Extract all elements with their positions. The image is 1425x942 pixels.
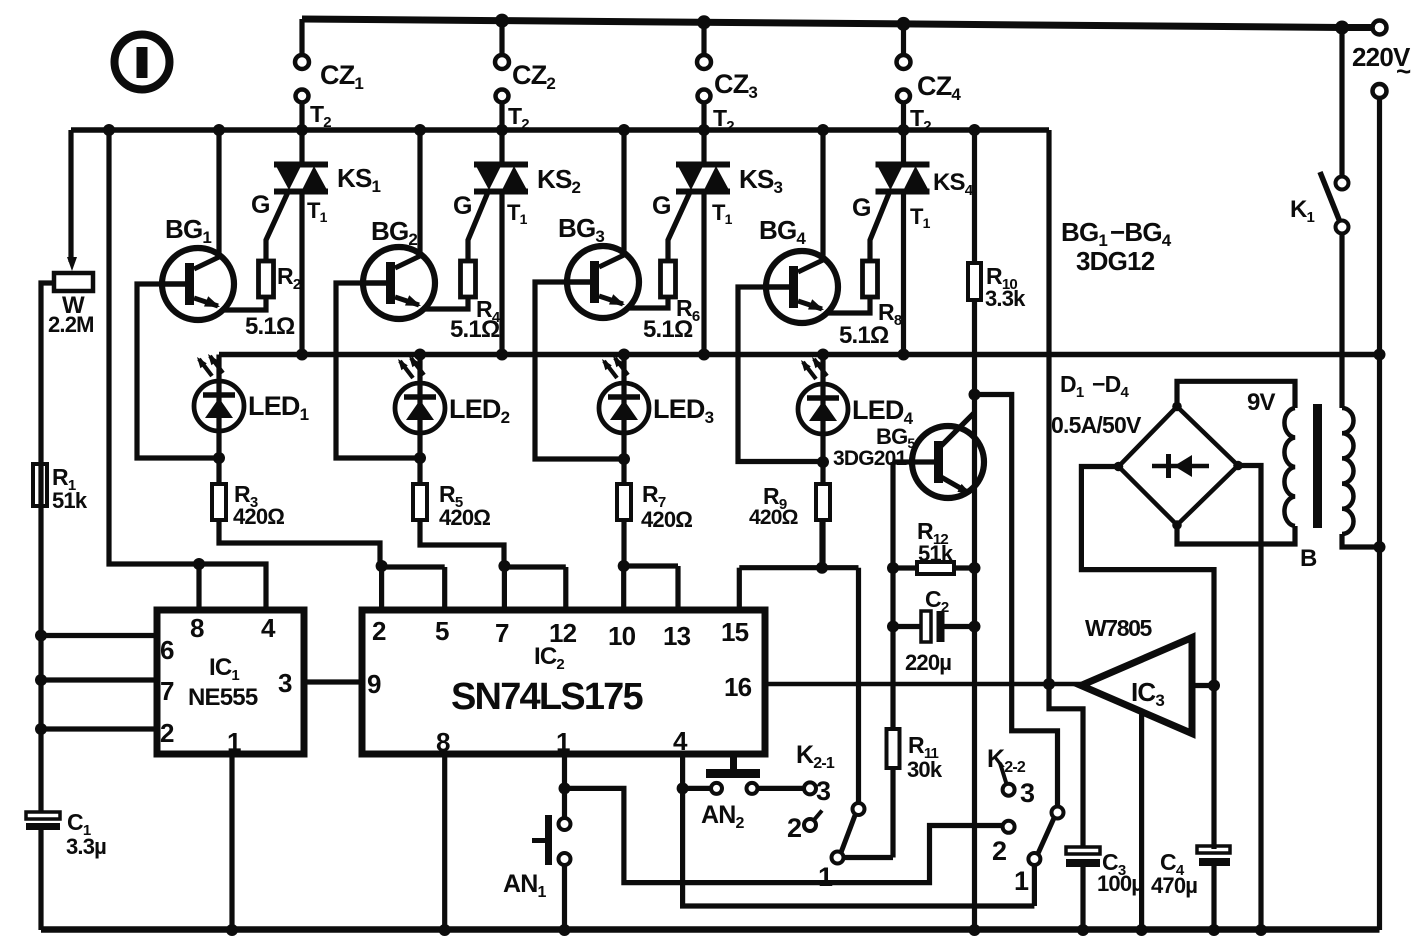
svg-text:SN74LS175: SN74LS175 [451, 676, 643, 718]
svg-text:G: G [852, 194, 871, 222]
svg-text:2: 2 [992, 836, 1006, 866]
svg-text:3DG201: 3DG201 [833, 447, 908, 470]
svg-text:G: G [251, 191, 270, 219]
svg-text:420Ω: 420Ω [233, 504, 284, 529]
svg-text:7: 7 [160, 676, 174, 706]
svg-text:LED2: LED2 [449, 394, 510, 427]
svg-text:5: 5 [435, 616, 449, 646]
svg-text:3: 3 [1020, 778, 1035, 808]
svg-text:13: 13 [663, 621, 691, 651]
svg-text:9V: 9V [1247, 389, 1276, 416]
svg-text:3: 3 [278, 668, 292, 698]
svg-text:1: 1 [227, 727, 241, 757]
svg-text:G: G [453, 192, 472, 220]
svg-text:4: 4 [673, 726, 688, 756]
svg-text:1: 1 [556, 727, 570, 757]
svg-text:420Ω: 420Ω [749, 506, 798, 529]
svg-text:G: G [652, 192, 671, 220]
svg-text:4: 4 [261, 613, 276, 643]
svg-text:1: 1 [1014, 866, 1029, 896]
svg-text:W7805: W7805 [1085, 615, 1152, 641]
svg-text:420Ω: 420Ω [439, 505, 490, 530]
svg-text:NE555: NE555 [188, 684, 258, 711]
svg-text:15: 15 [721, 617, 749, 647]
svg-text:3.3k: 3.3k [985, 286, 1026, 311]
svg-text:~: ~ [1396, 56, 1411, 86]
svg-text:8: 8 [436, 727, 450, 757]
svg-text:9: 9 [367, 669, 381, 699]
svg-text:7: 7 [495, 618, 509, 648]
svg-text:6: 6 [160, 635, 174, 665]
svg-text:3DG12: 3DG12 [1076, 246, 1155, 276]
svg-text:420Ω: 420Ω [641, 507, 692, 532]
svg-text:16: 16 [724, 672, 752, 702]
svg-text:220µ: 220µ [905, 650, 951, 675]
svg-text:0.5A/50V: 0.5A/50V [1051, 412, 1142, 438]
svg-text:2: 2 [372, 616, 386, 646]
svg-text:5.1Ω: 5.1Ω [245, 313, 295, 340]
svg-text:2: 2 [160, 718, 174, 748]
svg-text:LED3: LED3 [653, 394, 714, 427]
svg-text:1: 1 [818, 862, 833, 892]
svg-text:LED1: LED1 [248, 391, 309, 424]
svg-text:51k: 51k [52, 488, 88, 513]
svg-text:30k: 30k [907, 757, 943, 782]
svg-text:8: 8 [190, 613, 204, 643]
svg-text:5.1Ω: 5.1Ω [839, 322, 889, 349]
svg-text:2: 2 [787, 813, 801, 843]
svg-text:470µ: 470µ [1151, 873, 1197, 898]
svg-text:2.2M: 2.2M [48, 312, 94, 337]
svg-text:51k: 51k [918, 541, 954, 566]
svg-text:10: 10 [608, 621, 636, 651]
svg-text:100µ: 100µ [1097, 871, 1143, 896]
svg-text:B: B [1300, 545, 1317, 572]
svg-text:5.1Ω: 5.1Ω [643, 316, 693, 343]
svg-text:3: 3 [816, 776, 831, 806]
svg-text:3.3µ: 3.3µ [66, 834, 106, 859]
svg-text:5.1Ω: 5.1Ω [450, 316, 500, 343]
